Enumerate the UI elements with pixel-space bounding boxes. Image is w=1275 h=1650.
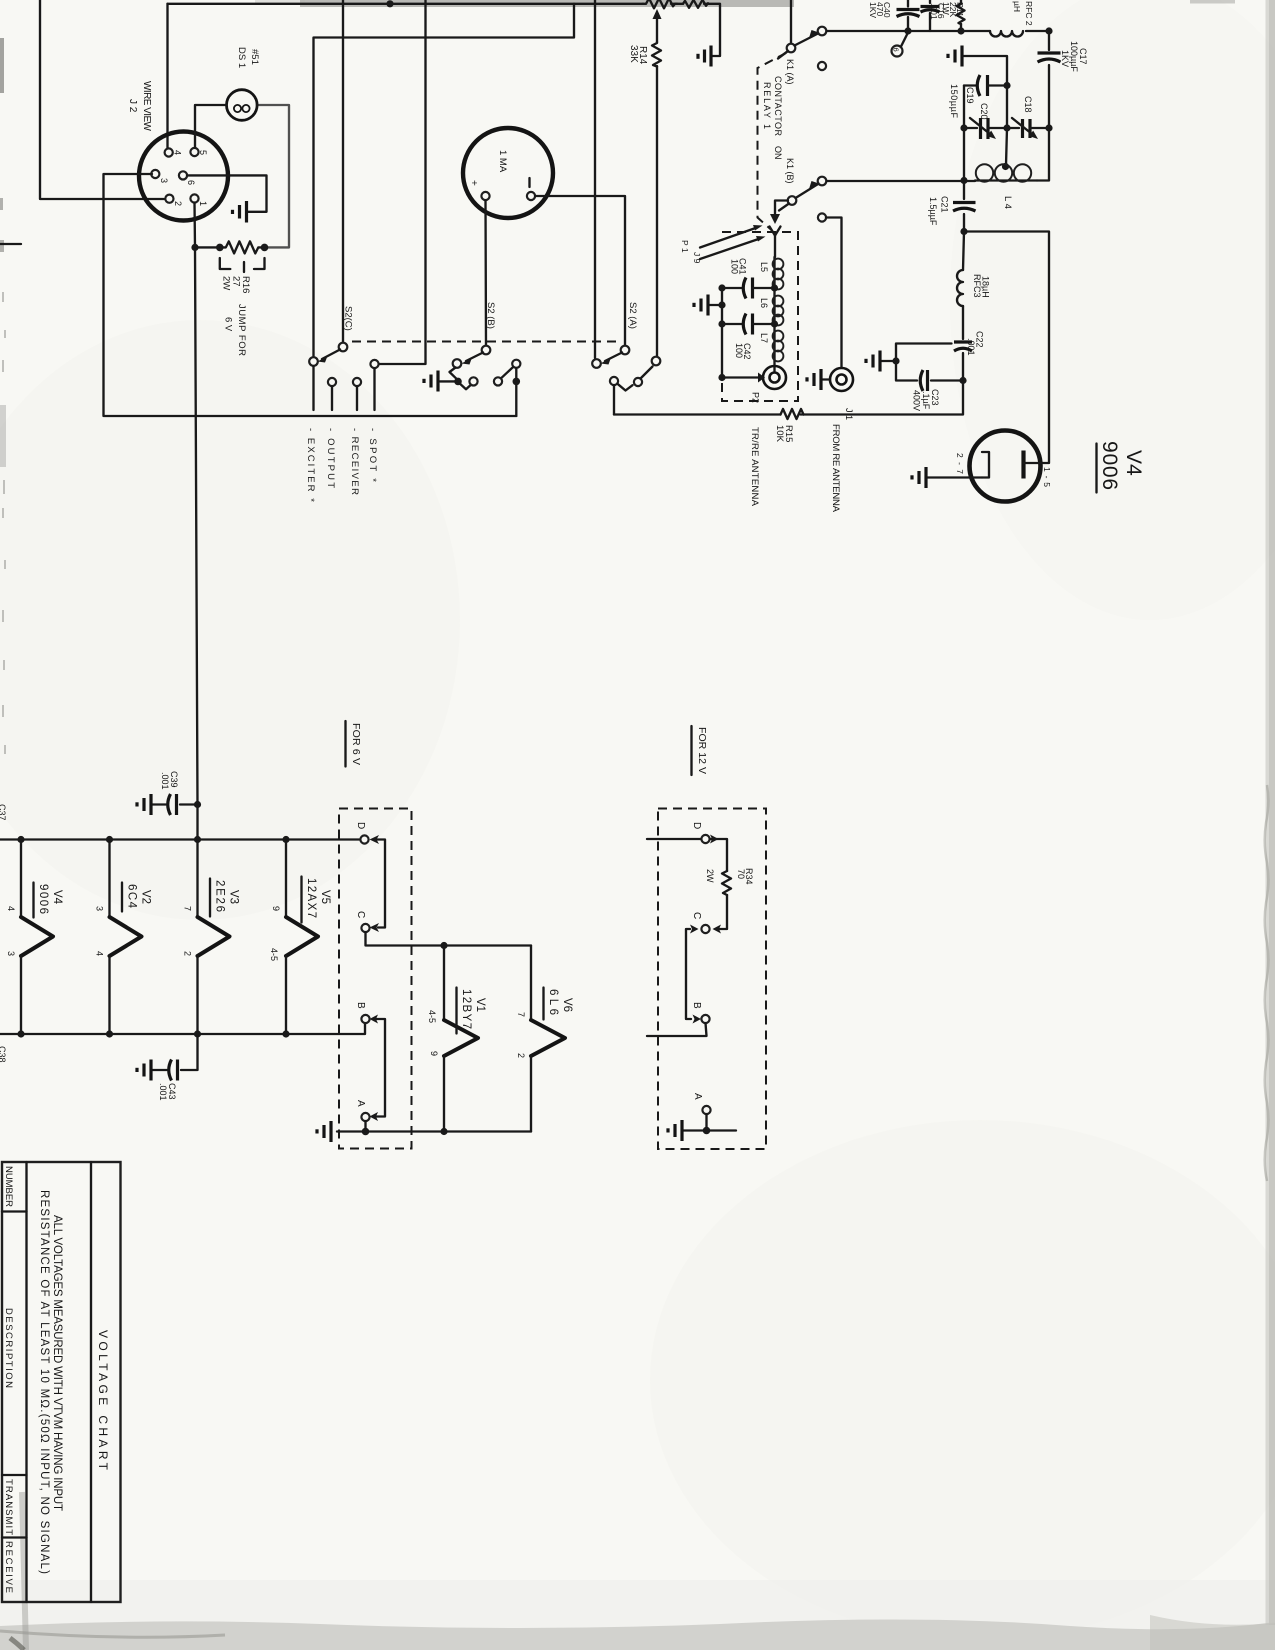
label C20	[979, 103, 989, 120]
svg-text:2-7: 2-7	[955, 453, 965, 474]
tube V4 filament	[21, 840, 53, 1035]
switch S2(B)	[440, 346, 520, 416]
svg-text:TR/RE ANTENNA: TR/RE ANTENNA	[749, 427, 760, 507]
label V4 9006 (tube)	[1097, 441, 1146, 493]
ground at C39	[137, 794, 151, 815]
ground at A 12V	[668, 1120, 682, 1141]
label TR/RE ANTENNA	[749, 427, 760, 507]
labels V6 filament pins	[516, 1012, 526, 1058]
wire C to B 12V	[686, 929, 701, 1024]
wire J2 pin4 up to top bus corner	[166, 4, 168, 148]
svg-text:A: A	[692, 1093, 703, 1100]
jack J1	[830, 368, 853, 391]
svg-text:RFC3: RFC3	[972, 274, 982, 298]
wire S2A contact feed from top	[594, 0, 596, 358]
svg-text:100: 100	[730, 259, 740, 274]
wire filter left rail	[718, 284, 725, 381]
capacitor C19 150uuF	[964, 75, 1007, 128]
label C43 .001	[158, 1083, 177, 1101]
title block frame	[2, 1162, 121, 1602]
tube V4 plate	[1024, 451, 1050, 479]
plug arrows P1 J9	[680, 225, 766, 264]
label TRANSMIT	[3, 1479, 14, 1535]
svg-text:4: 4	[95, 951, 105, 956]
svg-text:DESCRIPTION: DESCRIPTION	[3, 1308, 14, 1388]
wire D to C jumper	[370, 840, 386, 933]
svg-text:1.5µµF: 1.5µµF	[928, 197, 938, 226]
svg-text:C21: C21	[940, 196, 950, 213]
ground at J2	[233, 201, 247, 223]
capacitor C43 .001	[152, 1034, 198, 1081]
svg-text:2: 2	[173, 201, 183, 206]
inductor L7	[773, 324, 784, 366]
svg-text:.1µF: .1µF	[921, 391, 931, 410]
svg-text:150µµF: 150µµF	[949, 84, 959, 119]
label FOR 6V	[346, 721, 363, 767]
label C42 100	[734, 343, 752, 360]
tube V6 filament	[531, 946, 565, 1132]
wire B stub 12V	[647, 1023, 707, 1036]
svg-text:7: 7	[183, 906, 193, 911]
switch S2(C)	[309, 343, 378, 386]
terminal A 6V	[355, 1100, 370, 1121]
heater bus bottom	[0, 1024, 365, 1038]
label RECEIVE	[3, 1541, 14, 1593]
node C19/C20	[1003, 82, 1010, 132]
svg-text:L6: L6	[759, 298, 769, 308]
label 2-7	[955, 453, 965, 474]
capacitor C40 470 1KV	[897, 0, 920, 31]
ground at filter	[694, 295, 722, 316]
resistor R12 on top bus	[683, 0, 708, 8]
node (unlabeled junction on top bus)	[386, 0, 393, 7]
svg-text:- RECEIVER: - RECEIVER	[349, 428, 360, 495]
tube V5 filament	[286, 840, 318, 1035]
label S2 (A)	[627, 302, 638, 329]
svg-text:3: 3	[95, 906, 105, 911]
wire bus2 S2A to C23 node with R15	[614, 384, 963, 415]
label C39 .001	[160, 771, 179, 790]
wire J2 pin1 long vertical to heater bus	[195, 203, 198, 840]
label C41 100	[730, 258, 748, 275]
label SPOT	[367, 428, 378, 482]
svg-text:- EXCITER *: - EXCITER *	[305, 428, 316, 502]
label DESCRIPTION	[3, 1308, 14, 1388]
wire top bus from J2 pin4 corner to pot	[168, 3, 644, 5]
wire K1A common bus	[827, 30, 1050, 32]
tube V1 filament	[444, 946, 478, 1132]
label L4	[1002, 196, 1013, 209]
svg-text:2: 2	[516, 1053, 526, 1058]
capacitor C21 1.5uuF	[953, 181, 976, 236]
svg-text:C18: C18	[1023, 96, 1033, 113]
svg-text:S2 (B): S2 (B)	[485, 302, 496, 329]
terminal A 12V	[692, 1093, 711, 1114]
svg-text:C19: C19	[965, 87, 975, 104]
svg-text:9006: 9006	[1098, 441, 1121, 490]
label FOR 12V	[692, 726, 709, 775]
wire J2 pin3 to heater bus1	[104, 174, 517, 416]
tube V4 9006 envelope	[970, 431, 1041, 502]
label C19 150uuF	[949, 84, 975, 119]
capacitor C41 100	[722, 278, 775, 299]
capacitor C42 100	[722, 314, 775, 335]
ground at A terminal	[317, 1121, 331, 1142]
meter M1 1MA	[463, 128, 553, 218]
wire meter plus to S2B arm	[484, 201, 487, 347]
svg-text:WIRE VIEW: WIRE VIEW	[141, 81, 152, 132]
label J1	[844, 408, 854, 420]
label RECEIVER	[349, 428, 360, 495]
resistor R15 10K	[781, 409, 804, 419]
svg-text:33K: 33K	[628, 45, 639, 63]
svg-text:V2: V2	[140, 890, 152, 904]
label C23 .1uF 400V	[912, 389, 941, 411]
note text line 1	[51, 1215, 63, 1511]
label V2 6C4	[122, 883, 152, 912]
tube V2 filament	[110, 840, 142, 1035]
svg-text:J 9: J 9	[692, 252, 702, 264]
wire K1B common to L4	[827, 177, 976, 184]
label 1-5	[1042, 467, 1052, 487]
svg-text:V5: V5	[319, 890, 331, 904]
svg-text:4: 4	[173, 150, 183, 155]
svg-text:V3: V3	[228, 890, 240, 904]
labels V2 filament pins	[95, 906, 105, 956]
label V1 12BY7	[457, 988, 487, 1034]
svg-text:.001: .001	[966, 338, 976, 356]
svg-text:C: C	[691, 912, 702, 919]
svg-text:C38: C38	[0, 1046, 7, 1063]
resistor R11 22K 1W	[957, 0, 965, 35]
svg-text:9: 9	[271, 906, 281, 911]
svg-text:C20: C20	[979, 103, 989, 120]
svg-text:K1 (A): K1 (A)	[785, 59, 795, 85]
wire HV rail down to L4	[1037, 128, 1049, 181]
svg-text:V1: V1	[474, 998, 486, 1012]
svg-text:7: 7	[516, 1012, 526, 1017]
wire pin1 to R16	[195, 246, 220, 248]
relay K1 dashed outline	[758, 53, 787, 231]
svg-text:1KV: 1KV	[1060, 50, 1070, 67]
resistor R16 27 2W	[216, 241, 268, 253]
svg-text:1: 1	[198, 201, 208, 206]
svg-text:J 2: J 2	[127, 99, 138, 113]
capacitor C17 100uuF 1KV	[1038, 31, 1061, 128]
terminal D 12V	[647, 822, 719, 844]
wire lamp left to J2 pin5	[195, 105, 227, 148]
labels V4 filament pins	[6, 906, 16, 956]
label OUTPUT	[325, 428, 336, 488]
label S2(C)	[343, 306, 354, 331]
ground at V4 cathode	[912, 467, 926, 488]
wire A to ground bus	[337, 1121, 531, 1135]
wire C20 node down to L4 tap	[1002, 128, 1009, 170]
relay K1(B) contact	[779, 177, 826, 211]
label EXCITER	[305, 428, 316, 502]
ground at C19	[948, 46, 962, 67]
label C40 470 1KV	[868, 2, 892, 18]
heater bus top	[0, 836, 360, 843]
svg-text:A: A	[355, 1100, 366, 1107]
wire C to V1 V6 heaters	[366, 932, 532, 949]
relay K1(B) NC contact to J1	[818, 213, 842, 367]
label L5	[759, 262, 769, 272]
note text line 2	[38, 1190, 50, 1574]
svg-text:J 1: J 1	[844, 408, 854, 420]
svg-text:3: 3	[159, 178, 169, 183]
node C40	[904, 27, 911, 34]
terminal 6 marker	[892, 34, 908, 57]
svg-text:RFC 2: RFC 2	[1024, 1, 1034, 26]
svg-text:B: B	[355, 1002, 366, 1009]
svg-text:P2: P2	[751, 392, 761, 403]
wire y37 horizontal to top bus	[314, 4, 575, 357]
label V4 9006 (filament)	[34, 883, 64, 918]
svg-text:6L6: 6L6	[547, 989, 559, 1015]
label FROM RE ANTENNA	[830, 424, 841, 513]
svg-text:L5: L5	[759, 262, 769, 272]
label C21 1.5uuF	[928, 196, 950, 226]
labels V1 filament pins	[427, 1010, 439, 1056]
label R14 33K	[628, 45, 648, 65]
label L7	[759, 333, 769, 343]
svg-text:S2 (A): S2 (A)	[627, 302, 638, 329]
wire C20 left leg	[960, 124, 967, 180]
inductor L5	[771, 257, 783, 292]
resistor R34 70 2W	[710, 839, 731, 929]
tube V3 filament	[198, 840, 230, 1035]
svg-text:ALL VOLTAGES MEASURED WITH VTV: ALL VOLTAGES MEASURED WITH VTVM HAVING I…	[51, 1215, 63, 1511]
trimmer capacitor C18	[1007, 118, 1049, 139]
wire ground to C19 node	[963, 56, 1007, 86]
svg-text:2: 2	[183, 951, 193, 956]
wire C21 to HV rail down to V4 plate	[964, 232, 1049, 463]
switch S2(A)	[592, 346, 660, 415]
svg-text:12AX7: 12AX7	[305, 878, 317, 918]
inductor L6	[771, 288, 783, 328]
svg-text:S2(C): S2(C)	[343, 306, 354, 331]
relay K1(A) contact	[778, 0, 826, 59]
label C18	[1023, 96, 1033, 113]
svg-text:400V: 400V	[912, 390, 922, 411]
wire left vertical to J2 pin2	[40, 0, 164, 199]
capacitor C23 .1uF 400V	[896, 344, 963, 392]
inductor L4	[975, 164, 1037, 181]
svg-text:V6: V6	[561, 998, 573, 1012]
label R15 10K	[774, 425, 794, 443]
jack P2	[722, 366, 786, 389]
svg-text:5: 5	[198, 150, 208, 155]
terminal C 6V	[355, 911, 370, 932]
potentiometer R13 on top bus	[643, 0, 677, 8]
label JUMP FOR 6V	[223, 304, 248, 356]
svg-text:.001: .001	[160, 772, 170, 790]
svg-text:L7: L7	[759, 333, 769, 343]
label RFC2	[1012, 1, 1034, 26]
label RFC3 18uH	[972, 274, 991, 298]
svg-text:NUMBER: NUMBER	[3, 1166, 14, 1207]
svg-text:18µH: 18µH	[981, 276, 991, 298]
pin number labels J2	[159, 150, 208, 206]
wire J2 pin6 to ground	[187, 175, 267, 211]
svg-text:4: 4	[6, 906, 16, 911]
svg-text:#51: #51	[249, 49, 260, 65]
svg-text:FOR 6 V: FOR 6 V	[350, 723, 362, 765]
ground at J1	[807, 369, 830, 390]
node main HV rail top	[1045, 27, 1052, 34]
label R34 70 2W	[705, 868, 754, 885]
svg-text:70: 70	[736, 869, 746, 879]
terminal B 12V	[691, 1002, 710, 1023]
label VOLTAGE CHART	[96, 1330, 110, 1471]
label V3 2E26	[210, 879, 240, 917]
node C18 right	[1045, 124, 1052, 131]
label C37	[0, 804, 7, 821]
wire meter minus to S2A arm	[535, 196, 625, 346]
ground at C23	[866, 351, 900, 372]
label C17 100uuF 1KV	[1060, 41, 1088, 72]
svg-text:V4: V4	[1122, 450, 1145, 476]
capacitor C39 .001	[152, 794, 201, 815]
capacitor C16 .001	[921, 0, 940, 31]
dashed box antenna filter	[722, 232, 798, 401]
lamp DS1	[227, 90, 258, 121]
svg-text:FROM RE ANTENNA: FROM RE ANTENNA	[830, 424, 841, 513]
svg-text:1W: 1W	[941, 2, 951, 15]
ground at C43	[137, 1060, 151, 1081]
inductor RFC3 18uH	[957, 232, 964, 340]
label NUMBER	[3, 1166, 14, 1207]
labels V5 filament pins	[269, 906, 281, 961]
svg-text:TRANSMIT: TRANSMIT	[3, 1479, 14, 1535]
node pin1/R16	[191, 244, 198, 251]
label P2	[751, 392, 761, 403]
wire pot to R12 to corner	[671, 4, 720, 56]
wire B to A jumper	[370, 1015, 386, 1122]
svg-text:µH: µH	[1012, 1, 1022, 12]
svg-text:DS 1: DS 1	[236, 47, 247, 68]
svg-text:D: D	[691, 822, 702, 829]
label R11 22K 1W	[941, 2, 965, 17]
relay K1(A) NC contact	[818, 62, 826, 70]
label V6 6L6	[544, 988, 574, 1020]
svg-text:JUMP FOR: JUMP FOR	[236, 304, 247, 356]
svg-text:9006: 9006	[37, 884, 49, 914]
wire SPOT feed vertical from top	[379, 0, 426, 364]
terminal B 6V	[355, 1002, 370, 1023]
label K1(A) CONTACTOR RELAY 1 ON K1(B)	[762, 59, 795, 184]
svg-text:B: B	[691, 1002, 702, 1009]
svg-text:+: +	[468, 180, 479, 186]
svg-text:6: 6	[186, 180, 196, 185]
label C38	[0, 1046, 7, 1063]
wire A to ground 12V	[683, 1114, 736, 1134]
label S2 (B)	[485, 302, 496, 329]
svg-text:P 1: P 1	[680, 240, 690, 253]
dashed box 12V connections	[658, 809, 766, 1150]
svg-text:FOR 12 V: FOR 12 V	[696, 727, 708, 774]
svg-text:6: 6	[892, 48, 901, 52]
wire stub at left edge	[0, 243, 21, 245]
svg-text:ON: ON	[773, 146, 783, 160]
trimmer capacitor C20	[964, 118, 1007, 139]
svg-text:4-5: 4-5	[269, 948, 279, 961]
ground at S2(B)	[424, 371, 438, 392]
wire lamp right down to R16 right	[257, 105, 289, 247]
bracket under R16	[220, 258, 265, 272]
terminal D 6V	[355, 822, 379, 844]
tube V4 cathode	[927, 452, 989, 478]
labels V3 filament pins	[183, 906, 193, 956]
svg-text:.001: .001	[929, 3, 939, 20]
wire S2C feed vertical from top	[342, 0, 344, 343]
svg-text:100: 100	[734, 343, 744, 358]
svg-text:.001: .001	[158, 1083, 168, 1101]
svg-text:1-5: 1-5	[1042, 467, 1052, 487]
svg-text:12BY7: 12BY7	[460, 989, 472, 1029]
svg-text:1 MA: 1 MA	[497, 150, 508, 173]
svg-text:10K: 10K	[774, 425, 785, 443]
svg-text:C37: C37	[0, 804, 7, 821]
svg-text:K1 (B): K1 (B)	[785, 158, 795, 184]
svg-text:L 4: L 4	[1002, 196, 1013, 209]
label #51 DS1	[236, 47, 260, 68]
svg-text:RESISTANCE OF AT LEAST 10 MΩ.(: RESISTANCE OF AT LEAST 10 MΩ.(50Ω INPUT,…	[38, 1190, 50, 1574]
svg-text:9: 9	[429, 1051, 439, 1056]
wire K1(B) arm to antenna jack arrows	[770, 201, 789, 258]
svg-text:C: C	[355, 911, 366, 918]
label L6	[759, 298, 769, 308]
inductor RFC2	[990, 31, 1023, 37]
label WIRE VIEW J2	[127, 81, 152, 132]
svg-text:6 V: 6 V	[223, 317, 234, 332]
svg-text:CONTACTOR: CONTACTOR	[773, 76, 783, 137]
terminal C 12V	[690, 912, 721, 934]
svg-text:4-5: 4-5	[427, 1010, 437, 1023]
label C22 .001	[966, 331, 985, 356]
ganged switch dashed link	[352, 341, 622, 343]
svg-text:2W: 2W	[221, 276, 232, 290]
label R16 27 2W	[221, 276, 252, 293]
S2C contact stubs	[314, 366, 375, 410]
svg-text:2W: 2W	[705, 869, 715, 883]
potentiometer wiper arrow	[653, 9, 662, 42]
svg-text:1KV: 1KV	[868, 2, 878, 18]
ground at R12	[698, 46, 711, 67]
svg-text:6C4: 6C4	[126, 884, 138, 909]
label C16 .001	[929, 3, 946, 20]
dashed box 6V connections	[339, 809, 412, 1149]
label V5 12AX7	[302, 877, 332, 923]
svg-text:3: 3	[6, 951, 16, 956]
capacitor C22 .001	[954, 342, 972, 384]
svg-text:V4: V4	[51, 890, 63, 905]
connector J2 (wire view)	[139, 132, 228, 221]
resistor R14 33K	[652, 42, 661, 356]
svg-text:D: D	[355, 822, 366, 829]
